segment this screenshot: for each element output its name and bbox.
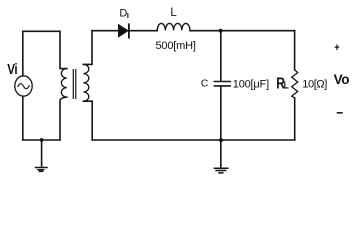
wire secondary top jog and riser [83,31,92,65]
ground right stem [220,140,222,168]
inductor L [157,23,190,30]
svg-text:Vo: Vo [334,72,350,87]
wire secondary top rail to diode [92,30,119,32]
ground left stem [41,140,43,167]
wire left bottom rail [23,139,60,141]
node bottom junction [219,138,223,142]
ground right bars [214,168,227,173]
svg-text:C: C [201,78,209,90]
wire diode to inductor [130,30,158,32]
wire right side drop to resistor [294,31,296,70]
wire primary bottom jog [60,97,67,140]
capacitor C bottom stem [220,86,222,140]
svg-text:L: L [170,7,177,19]
svg-text:L: L [284,80,289,91]
wire inductor to top-right corner [190,30,295,32]
svg-text:500[mH]: 500[mH] [156,40,196,52]
node top junction [219,29,223,33]
wire resistor bottom lead [294,98,296,140]
wire secondary bottom jog and drop [83,101,92,140]
source Vi sine symbol [18,84,29,89]
capacitor C top stem [220,31,222,82]
transformer core [73,70,76,99]
ground left bars [36,168,48,172]
svg-text:Vi: Vi [7,61,17,78]
label minus [337,112,343,114]
transformer T1 secondary coil [83,64,88,101]
source Vi circle [15,76,32,96]
diode Di [119,25,128,37]
label plus [335,47,340,48]
svg-text:10[Ω]: 10[Ω] [302,78,327,90]
svg-text:100[μF]: 100[μF] [233,78,269,90]
svg-text:D: D [119,8,127,20]
resistor RL zigzag [292,70,298,98]
wire Vi top lead and top-left loop [23,31,67,76]
transformer T1 primary coil [61,69,66,98]
node left junction [40,138,44,142]
wire bottom rail [92,139,295,141]
capacitor C plates [214,82,230,86]
wire Vi bottom lead [22,96,24,140]
